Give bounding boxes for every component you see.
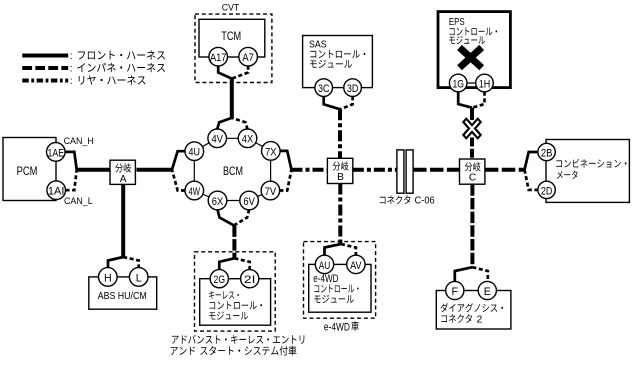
svg-text:C-06: C-06: [415, 195, 435, 207]
svg-text:ABS HU/CM: ABS HU/CM: [98, 290, 147, 302]
svg-text:E: E: [484, 286, 491, 298]
svg-text:1H: 1H: [479, 78, 491, 90]
svg-text:L: L: [136, 272, 142, 284]
svg-text:AV: AV: [350, 260, 362, 272]
svg-text::: :: [70, 50, 73, 62]
svg-text:A17: A17: [210, 52, 227, 64]
svg-text:2: 2: [477, 313, 483, 325]
svg-text:2I: 2I: [244, 274, 256, 286]
svg-text:4V: 4V: [211, 134, 223, 146]
svg-text:4U: 4U: [189, 147, 201, 159]
svg-text:e-4WD: e-4WD: [324, 321, 350, 333]
svg-text:4X: 4X: [242, 134, 254, 146]
svg-text:2D: 2D: [541, 185, 553, 197]
svg-text:6X: 6X: [212, 196, 224, 208]
svg-text:H: H: [104, 272, 112, 284]
svg-text:6V: 6V: [243, 196, 255, 208]
svg-text:1AE: 1AE: [48, 147, 65, 159]
svg-text:C: C: [469, 173, 476, 184]
svg-text:EPS: EPS: [449, 17, 465, 28]
svg-text:2B: 2B: [541, 147, 553, 159]
svg-text:CVT: CVT: [222, 2, 240, 13]
svg-text:7V: 7V: [265, 186, 277, 198]
svg-text:PCM: PCM: [17, 166, 38, 178]
svg-text:TCM: TCM: [221, 31, 241, 43]
svg-text::: :: [70, 75, 73, 87]
svg-text:7X: 7X: [265, 146, 277, 158]
svg-text:AU: AU: [319, 260, 331, 272]
svg-text:BCM: BCM: [223, 166, 243, 178]
svg-text:F: F: [452, 286, 459, 298]
svg-text:e-4WD: e-4WD: [313, 273, 338, 285]
svg-text:A7: A7: [242, 52, 254, 64]
svg-text:1G: 1G: [452, 78, 464, 90]
svg-text:4W: 4W: [189, 186, 201, 198]
svg-text:3C: 3C: [318, 83, 330, 95]
svg-text:A: A: [120, 174, 127, 185]
svg-text:B: B: [337, 172, 344, 183]
svg-text:CAN_L: CAN_L: [64, 196, 93, 207]
svg-text:SAS: SAS: [309, 39, 327, 50]
svg-text::: :: [70, 63, 73, 75]
svg-text:3D: 3D: [347, 83, 359, 95]
svg-text:2G: 2G: [214, 274, 226, 286]
svg-text:CAN_H: CAN_H: [64, 136, 94, 147]
svg-text:1AI: 1AI: [48, 186, 65, 198]
